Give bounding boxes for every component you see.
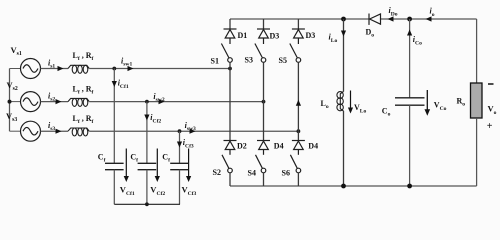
diode D5 — [292, 29, 305, 44]
inductor Lo coil — [337, 92, 344, 112]
capacitor Cf3 branch wire upper — [179, 131, 181, 163]
current arrow is1 — [58, 66, 64, 71]
wire stub phase c to bus — [10, 130, 21, 132]
inductor Lf Rf phase a — [68, 65, 89, 73]
current arrow iLo — [341, 31, 346, 37]
switch S2 — [222, 155, 232, 173]
capacitor Co branch lower wire — [409, 105, 411, 186]
switch S5 — [290, 44, 301, 63]
junction phase c / Cf3 — [178, 129, 182, 133]
AC source Vs1 — [21, 59, 41, 79]
current arrow isw1 — [128, 66, 134, 71]
AC source Vs2 — [21, 92, 41, 112]
svg-text:S1: S1 — [211, 57, 219, 66]
leg 2 mid wire — [263, 62, 265, 140]
wire phase a to bridge — [89, 68, 230, 70]
junction Co / bottom bus — [407, 184, 412, 189]
voltage arrow VCf3 — [186, 149, 191, 183]
svg-text:S3: S3 — [245, 56, 253, 65]
wire right edge lower — [476, 118, 478, 186]
wire phase a source to filter — [41, 68, 69, 70]
wire phase c source to filter — [41, 130, 69, 132]
node C top bus / Co — [407, 17, 412, 22]
wire top DC bus — [230, 18, 369, 20]
voltage arrow VCo — [425, 90, 431, 116]
capacitor Cf1 plates — [105, 163, 124, 169]
wire Cf1 lower — [113, 170, 115, 205]
leg 1 bottom wire — [229, 173, 231, 186]
node A top bus / Lo — [341, 17, 346, 22]
AC source Vs3 — [21, 121, 41, 141]
inductor Lf Rf phase c — [68, 128, 89, 136]
diode D1 — [224, 29, 237, 44]
capacitor Co branch upper wire — [409, 19, 411, 98]
wire left star bus vertical — [9, 69, 11, 132]
diode D6 — [292, 141, 305, 155]
wire phase c to bridge — [89, 130, 298, 132]
svg-text:S2: S2 — [213, 168, 221, 177]
wire right edge upper — [476, 19, 478, 83]
leg 2 top wire — [263, 19, 265, 29]
inductor Lo branch upper wire — [343, 19, 345, 92]
current arrow on leg 3 — [296, 100, 301, 106]
current arrow is2 — [56, 99, 62, 104]
svg-text:S5: S5 — [279, 56, 287, 65]
voltage arrow VCf1 — [124, 149, 129, 183]
current arrow isw3 — [190, 129, 196, 134]
leg 1 mid wire — [229, 62, 231, 140]
switch S3 — [255, 44, 266, 63]
voltage arrow VLo — [348, 91, 353, 114]
current arrow is3 — [56, 129, 62, 134]
svg-text:+: + — [487, 121, 493, 132]
voltage arrow VCf2 — [155, 149, 160, 183]
inductor Lf Rf phase b — [68, 98, 89, 106]
leg 2 bottom wire — [263, 173, 265, 186]
current arrow iDo — [388, 16, 394, 21]
wire Cf2 lower — [146, 170, 148, 205]
svg-text:D4: D4 — [274, 141, 284, 150]
current arrow io — [426, 16, 432, 21]
diode D4 — [257, 141, 270, 155]
capacitor Cf1 branch wire upper — [113, 69, 115, 164]
svg-text:D3: D3 — [270, 32, 280, 41]
capacitor Cf2 branch wire upper — [146, 102, 148, 164]
junction phase a / Cf1 — [112, 67, 116, 71]
switch S1 — [221, 44, 232, 63]
svg-text:D4: D4 — [308, 141, 318, 150]
capacitor Cf2 plates — [138, 163, 157, 169]
switch S4 — [256, 155, 266, 173]
diode Do — [369, 14, 381, 25]
junction phase c / leg 3 — [297, 129, 301, 133]
wire top DC bus right of Do — [381, 18, 477, 20]
inductor Lo branch lower wire — [343, 111, 345, 186]
switch S6 — [290, 155, 300, 173]
wire stub phase b to bus — [10, 101, 21, 103]
junction tie / Cf2 — [145, 202, 149, 206]
junction star point — [8, 100, 12, 104]
diode D3 — [257, 29, 270, 44]
diode D2 — [224, 141, 237, 155]
leg 3 top wire — [297, 19, 299, 29]
svg-text:D1: D1 — [238, 31, 248, 40]
capacitor Co plates — [395, 98, 425, 105]
wire Cf3 lower — [179, 170, 181, 205]
svg-text:D2: D2 — [237, 141, 247, 150]
junction phase a / leg 1 — [228, 67, 232, 71]
leg 1 top wire — [229, 19, 231, 29]
label minus — [488, 83, 494, 85]
junction phase b / Cf2 — [145, 100, 149, 104]
current arrow isw2 — [159, 99, 165, 104]
current arrow iCo — [407, 30, 412, 36]
svg-text:S6: S6 — [282, 169, 290, 178]
wire phase b to bridge — [89, 101, 263, 103]
svg-text:D3: D3 — [306, 31, 316, 40]
junction phase b / leg 2 — [262, 100, 266, 104]
current arrow iCf3 — [177, 142, 182, 148]
wire phase b source to filter — [41, 101, 69, 103]
current arrow iCf2 — [144, 115, 149, 121]
current arrow iCf1 — [112, 81, 117, 87]
resistor Ro — [471, 83, 483, 118]
leg 3 mid wire — [297, 62, 299, 140]
wire stub phase a to bus — [10, 68, 21, 70]
wire capacitor star tie — [114, 203, 180, 205]
svg-text:S4: S4 — [248, 169, 256, 178]
leg 3 bottom wire — [297, 173, 299, 186]
capacitor Cf3 plates — [170, 163, 189, 169]
wire bottom DC bus — [230, 185, 477, 187]
junction Lo / bottom bus — [341, 184, 346, 189]
